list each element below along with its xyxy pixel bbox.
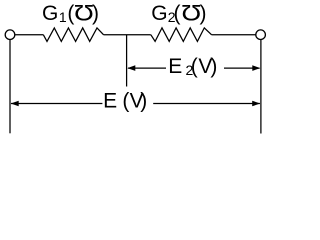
svg-text:1: 1	[59, 9, 67, 25]
svg-text:): )	[140, 90, 147, 113]
svg-text:(: (	[174, 2, 181, 25]
E2 dimension arrow left	[127, 65, 135, 71]
svg-text:): )	[210, 55, 217, 78]
svg-text:Ʊ: Ʊ	[74, 1, 94, 25]
E dimension arrow right	[252, 101, 260, 107]
label G1 (mho)	[42, 1, 99, 25]
E2 dimension line left segment	[128, 67, 166, 69]
E2 dimension line right segment	[224, 67, 260, 69]
E dimension arrow left	[11, 101, 19, 107]
terminal circle left	[5, 30, 15, 40]
extension line right (below right terminal)	[260, 40, 262, 134]
label E (V)	[103, 90, 147, 113]
label E2(V)	[168, 55, 217, 78]
extension line middle node	[126, 35, 128, 87]
resistor G1 zigzag	[43, 28, 103, 42]
E2 dimension arrow right	[252, 65, 260, 71]
extension line left (below left terminal)	[9, 40, 11, 134]
svg-text:E: E	[103, 90, 117, 113]
resistor G2 zigzag	[151, 28, 212, 42]
wire R1 to R2 with node	[104, 34, 151, 36]
svg-text:): )	[92, 2, 99, 25]
wire R2 to right terminal	[212, 34, 256, 36]
terminal circle right	[256, 30, 266, 40]
svg-text:Ʊ: Ʊ	[181, 1, 201, 25]
E dimension line left segment	[11, 103, 102, 105]
svg-text:E: E	[168, 55, 182, 78]
wire left terminal to R1	[15, 34, 44, 36]
svg-text:(: (	[122, 90, 129, 113]
svg-text:): )	[200, 2, 207, 25]
label G2 (mho)	[151, 1, 206, 25]
svg-text:(: (	[191, 55, 198, 78]
svg-text:G: G	[151, 2, 167, 25]
svg-text:G: G	[42, 2, 58, 25]
E dimension line right segment	[153, 103, 260, 105]
